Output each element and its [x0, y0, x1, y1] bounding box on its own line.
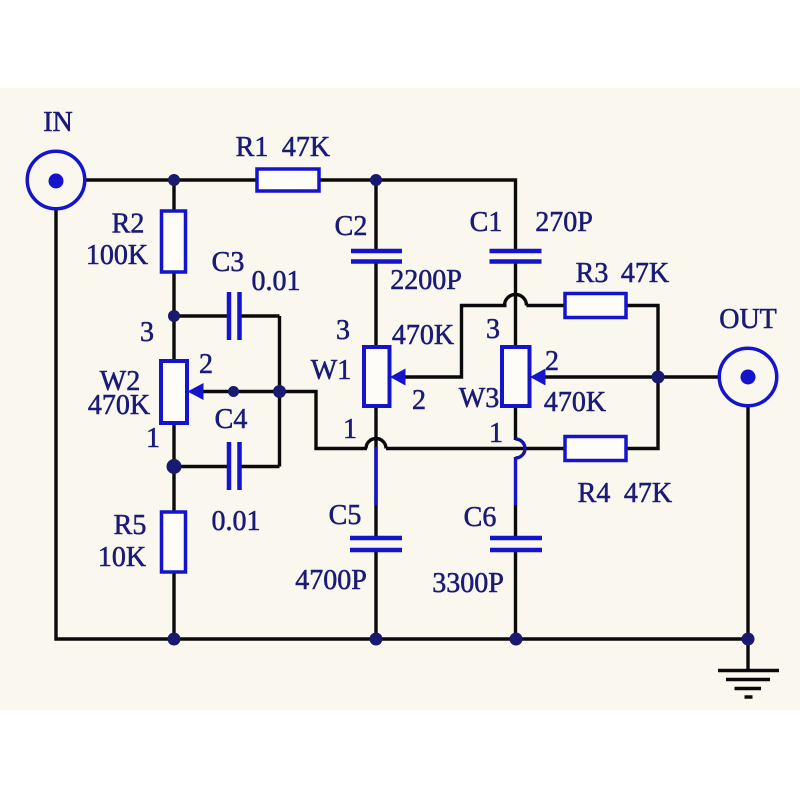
resistor R1 — [257, 169, 319, 191]
wire: C3 right plate to right branch — [242, 314, 280, 317]
svg-text:R2: R2 — [112, 209, 145, 240]
svg-text:3300P: 3300P — [432, 568, 504, 599]
svg-text:2: 2 — [199, 349, 213, 380]
wire: W3 wiper to OUT — [546, 375, 720, 378]
svg-text:470K: 470K — [88, 390, 150, 421]
capacitor C2 — [351, 251, 402, 262]
wire: R1 right to node B — [319, 178, 376, 181]
svg-text:10K: 10K — [98, 542, 146, 573]
svg-text:R1: R1 — [236, 132, 269, 163]
wire: C4 right plate to right branch — [242, 465, 280, 468]
svg-text:C2: C2 — [335, 211, 368, 242]
wire: OUT down to rail — [746, 406, 749, 640]
svg-text:100K: 100K — [86, 240, 148, 271]
junction node A — [168, 174, 180, 186]
potentiometer W1 — [364, 347, 406, 406]
resistor R5 — [162, 512, 186, 572]
wire: W2 pin1 to node D — [172, 423, 175, 467]
svg-text:3: 3 — [336, 315, 350, 346]
connector IN — [27, 151, 85, 209]
potentiometer W2 — [161, 361, 204, 423]
svg-text:47K: 47K — [282, 132, 330, 163]
svg-text:IN: IN — [43, 107, 73, 138]
wire: W3 pin1 down — [514, 406, 517, 440]
wire: R2 to node C — [172, 272, 175, 316]
junction node C — [168, 310, 180, 322]
svg-text:1: 1 — [343, 414, 357, 445]
svg-text:2200P: 2200P — [390, 265, 462, 296]
svg-text:270P: 270P — [535, 207, 593, 238]
wire: node A to R2 — [172, 180, 175, 211]
svg-text:47K: 47K — [624, 478, 672, 509]
wire: lead into C6 — [514, 505, 517, 536]
svg-text:470K: 470K — [544, 387, 606, 418]
svg-text:W3: W3 — [459, 383, 499, 414]
wire: link to R4 left — [386, 447, 565, 450]
junction rail C5 — [370, 633, 383, 646]
junction node B — [370, 174, 382, 186]
svg-text:470K: 470K — [392, 320, 454, 351]
wire hop: over C1-W3 lead — [505, 295, 527, 306]
svg-text:C4: C4 — [215, 404, 248, 435]
svg-text:1: 1 — [489, 418, 503, 449]
svg-text:4700P: 4700P — [295, 565, 367, 596]
wire: node C to C3 left plate — [174, 314, 227, 317]
connector OUT — [719, 348, 777, 406]
capacitor C3 — [229, 292, 240, 340]
wire: W1 pin1 down to C5 — [374, 406, 377, 536]
svg-text:0.01: 0.01 — [252, 266, 301, 297]
svg-text:C6: C6 — [464, 502, 497, 533]
svg-text:C5: C5 — [329, 500, 362, 531]
capacitor C5 — [350, 538, 402, 550]
junction rail ground — [742, 633, 755, 646]
wire: W2 wiper to node E — [204, 390, 280, 393]
junction rail C6 — [510, 633, 523, 646]
wire: W1 pin3 top lead — [374, 180, 377, 249]
wire: blue lead segment below W1 — [374, 447, 377, 505]
wire hop: W3 lead over bottom link — [516, 439, 526, 458]
svg-text:1: 1 — [146, 423, 160, 454]
wire: node C to W2 pin3 — [172, 316, 175, 361]
junction wiper W2 — [228, 386, 239, 397]
svg-text:0.01: 0.01 — [212, 506, 261, 537]
capacitor C1 — [490, 251, 542, 262]
wire: node A to R1 left — [174, 178, 257, 181]
svg-text:3: 3 — [486, 314, 500, 345]
wire: right branch vertical C3 to C4 — [278, 316, 281, 467]
wire: R5 to bottom rail — [172, 572, 175, 639]
svg-text:C3: C3 — [212, 247, 245, 278]
wire: blue lead segment above C6 — [514, 457, 517, 505]
wire: node D to C4 left plate — [174, 465, 227, 468]
svg-text:C1: C1 — [470, 207, 503, 238]
wire: C2 bottom to W1 pin3 — [374, 264, 377, 348]
svg-text:2: 2 — [545, 346, 559, 377]
wire: IN to node A — [85, 178, 175, 181]
wire: C6 bottom to rail — [514, 552, 517, 639]
resistor R2 — [162, 211, 186, 272]
potentiometer W3 — [502, 347, 546, 406]
svg-text:2: 2 — [412, 385, 426, 416]
svg-text:R5: R5 — [114, 510, 147, 541]
junction node F — [652, 371, 665, 384]
capacitor C4 — [229, 442, 240, 490]
svg-text:R3: R3 — [576, 258, 609, 289]
wire: W1 wiper to R3 branch — [406, 306, 507, 378]
ground — [718, 671, 779, 698]
svg-text:W1: W1 — [311, 355, 351, 386]
junction rail left — [168, 633, 181, 646]
wire: C1 bottom to W3 pin3 — [514, 264, 517, 348]
junction node D — [167, 459, 182, 474]
wire: node B to top-right corner — [376, 180, 516, 249]
wire: hop to R3 left — [527, 304, 566, 307]
wire: bottom ground rail — [174, 637, 748, 640]
wire: C5 bottom to rail — [374, 552, 377, 639]
wire hop: over W1 lead — [366, 439, 386, 449]
resistor R3 — [565, 294, 626, 318]
svg-text:47K: 47K — [621, 258, 669, 289]
paper background band — [0, 88, 800, 710]
wire: ground stem — [746, 639, 749, 669]
wire: R4 right to node F — [626, 377, 658, 449]
wire: node E to bottom link corner — [280, 392, 368, 449]
wire: R3 right to node F — [626, 306, 658, 378]
wire: IN down the left side — [56, 209, 174, 640]
resistor R4 — [565, 437, 626, 461]
wire: node D to R5 — [172, 467, 175, 513]
svg-text:3: 3 — [140, 317, 154, 348]
junction node E — [273, 385, 286, 398]
svg-text:R4: R4 — [578, 478, 611, 509]
capacitor C6 — [490, 538, 542, 550]
svg-text:OUT: OUT — [719, 304, 777, 335]
